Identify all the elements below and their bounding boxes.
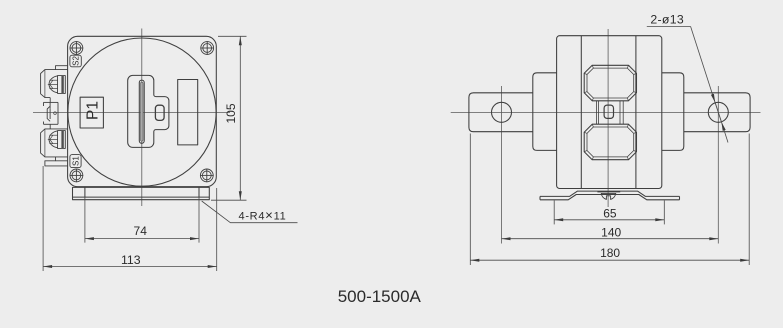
svg-text:140: 140	[601, 225, 621, 239]
svg-text:S1: S1	[72, 156, 81, 166]
svg-text:74: 74	[134, 224, 148, 238]
svg-text:4-R4×11: 4-R4×11	[239, 207, 287, 222]
svg-text:113: 113	[121, 253, 141, 267]
svg-text:P1: P1	[84, 101, 101, 120]
svg-text:105: 105	[224, 103, 238, 123]
svg-text:S2: S2	[72, 55, 81, 65]
svg-text:2-ø13: 2-ø13	[650, 13, 684, 27]
svg-text:500-1500A: 500-1500A	[338, 287, 422, 306]
svg-text:180: 180	[600, 246, 620, 260]
svg-text:65: 65	[603, 206, 617, 220]
